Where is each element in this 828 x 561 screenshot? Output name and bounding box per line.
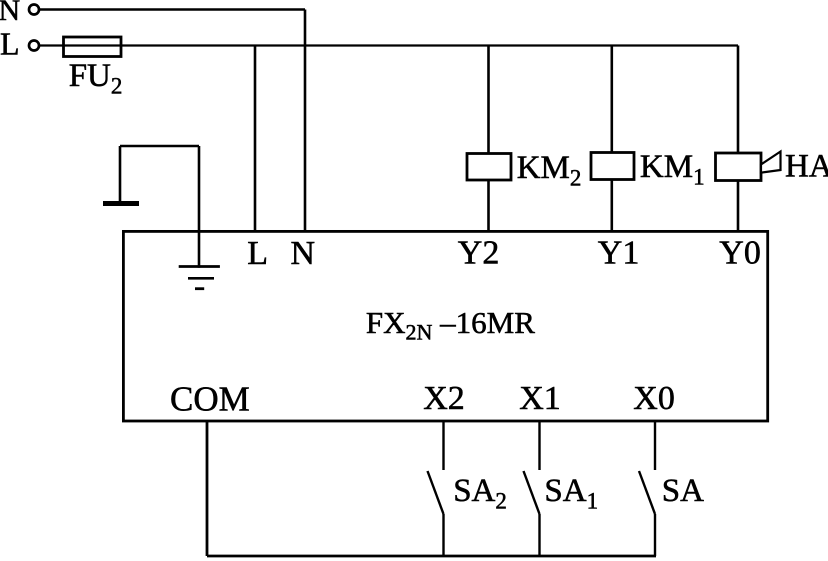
coil KM1 [591,153,634,180]
fuse FU2 [64,37,122,57]
svg-text:FX2N –16MR: FX2N –16MR [366,305,535,345]
ground wire horizontal run [120,145,199,148]
switch SA1 blade [524,471,540,514]
wire X0 upper [654,421,656,470]
svg-text:X1: X1 [519,380,561,417]
svg-text:COM: COM [170,380,250,419]
switch SA blade [639,471,655,514]
wire Y2 branch vertical [487,46,490,232]
wire X1 lower [538,514,540,556]
ground wire to earth symbol [198,146,201,268]
buzzer HA body [716,153,762,181]
wire X1 upper [538,421,540,470]
switch SA2 blade [428,471,444,514]
wire L drop to PLC L terminal [254,46,257,232]
svg-text:Y2: Y2 [458,235,500,272]
svg-text:N: N [0,0,20,27]
svg-text:HA: HA [785,149,828,185]
svg-text:L: L [247,235,268,272]
coil KM2 [467,154,511,181]
earth symbol bar 3 [195,287,204,290]
svg-text:X2: X2 [423,380,465,417]
svg-text:Y1: Y1 [598,235,640,272]
svg-text:SA: SA [662,473,704,509]
ground wire left vertical [119,146,122,201]
node N terminal circle [29,5,39,15]
svg-text:Y0: Y0 [719,235,761,272]
wire COM vertical [206,421,209,556]
wire N line horizontal [40,8,305,11]
wire L line horizontal [40,44,738,46]
wire N line vertical drop to PLC N terminal [304,10,307,232]
wire bottom common rail [207,555,656,558]
wire X0 lower [654,514,656,556]
wire X2 upper [442,421,444,470]
buzzer HA horn [761,152,781,173]
wire X2 lower [442,514,444,556]
svg-text:N: N [291,235,316,272]
wire Y0 branch vertical [737,46,740,232]
PLC box FX2N-16MR [123,231,767,421]
wire Y1 branch vertical [610,46,613,232]
ground plate bar [103,201,139,206]
svg-text:X0: X0 [633,380,675,417]
svg-text:L: L [0,26,20,62]
earth symbol bar 2 [188,277,214,280]
node L terminal circle [29,41,39,51]
earth symbol bar 1 [179,265,220,268]
